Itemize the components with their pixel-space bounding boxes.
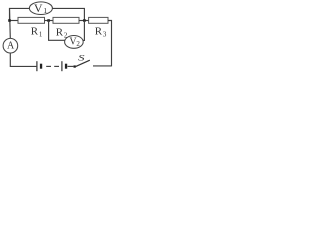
svg-text:V: V	[34, 1, 43, 15]
resistor R1	[18, 17, 45, 38]
wire ammeter to bottom bus	[10, 53, 36, 66]
svg-text:R: R	[95, 25, 103, 37]
svg-text:A: A	[7, 41, 15, 52]
wire switch to bottom-right corner	[93, 65, 112, 67]
wire between R1 and R2	[45, 20, 54, 22]
svg-text:R: R	[31, 25, 39, 37]
wire R3 to right bus, right bus down	[108, 21, 112, 67]
resistor R2	[53, 17, 79, 39]
svg-text:2: 2	[76, 40, 80, 48]
voltmeter V2	[65, 36, 84, 49]
switch S contact dot	[74, 65, 76, 67]
wire top-left corner and left bus	[10, 8, 30, 20]
svg-text:R: R	[56, 26, 64, 38]
wire left bus down to ammeter	[9, 8, 12, 38]
wire top bus right of V1	[52, 8, 84, 20]
wire battery to switch	[68, 65, 74, 67]
svg-text:3: 3	[103, 30, 107, 38]
battery cell 1 short plate	[40, 64, 42, 69]
ammeter A	[3, 38, 18, 53]
wire between R2 and R3	[79, 20, 89, 22]
battery cell 1 long plate	[36, 61, 38, 71]
wire row2 left segment	[10, 20, 19, 22]
wire V2 right branch	[83, 21, 85, 41]
battery cell 2 short plate	[65, 64, 67, 69]
voltmeter V1	[29, 1, 52, 15]
node junction R2-R3	[83, 19, 86, 22]
wire dash 2	[54, 65, 59, 67]
battery cell 2 long plate	[61, 61, 63, 71]
svg-text:1: 1	[43, 6, 47, 15]
node junction R1-R2	[47, 19, 50, 22]
svg-text:1: 1	[39, 30, 43, 38]
wire dash 1	[46, 65, 51, 67]
resistor R3	[89, 17, 108, 38]
wire V2 left branch	[49, 21, 65, 41]
node junction left bus	[8, 19, 11, 22]
switch S blade	[76, 60, 90, 66]
